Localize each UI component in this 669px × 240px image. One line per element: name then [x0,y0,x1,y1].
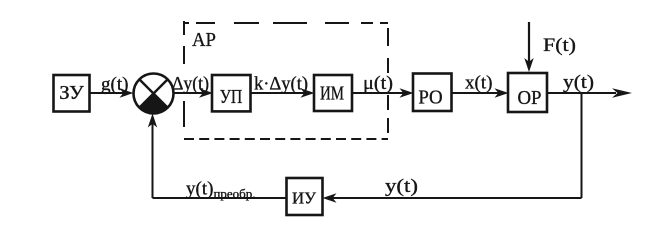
block ИУ [287,178,323,215]
wire ИМ to РО [352,88,414,97]
svg-text:μ(t): μ(t) [363,73,393,94]
block ОР [508,73,547,112]
dashed box AP right edge [387,28,389,133]
svg-text:F(t): F(t) [543,35,576,56]
svg-text:g(t): g(t) [101,74,128,95]
block ЗУ [54,75,90,112]
wire junction to УП [174,88,213,97]
svg-text:y(t): y(t) [385,176,418,197]
wire ЗУ to summing junction [90,88,134,97]
svg-text:y(t)преобр.: y(t)преобр. [186,179,256,202]
block РО [413,74,452,112]
wire ИУ to left riser [153,197,287,199]
svg-text:АР: АР [192,29,216,51]
svg-text:x(t): x(t) [465,73,492,94]
block УП [212,75,251,111]
feedback bottom wire from tap to ИУ [323,193,582,202]
svg-text:ЗУ: ЗУ [59,82,84,104]
dashed box AP (regulator boundary) top edge [184,22,388,24]
svg-text:РО: РО [418,87,442,109]
wire УП to ИМ [251,88,315,97]
block ИМ [314,75,352,111]
svg-text:ИУ: ИУ [292,189,317,208]
svg-text:y(t): y(t) [563,72,594,93]
wire РО to ОР [452,88,509,97]
svg-text:ОР: ОР [518,87,542,109]
feedback tap vertical wire [581,93,583,198]
summing junction (comparator) [134,74,174,114]
svg-text:ИМ: ИМ [320,83,344,105]
svg-text:Δy(t): Δy(t) [172,74,209,95]
disturbance F(t) arrow into ОР [524,22,533,72]
dashed box AP left edge [183,21,185,127]
feedback riser into summing junction [148,114,157,199]
svg-text:УП: УП [220,86,243,108]
output wire y(t) [547,88,632,98]
svg-text:k·Δy(t): k·Δy(t) [254,74,308,95]
dashed box AP bottom edge [184,138,388,140]
